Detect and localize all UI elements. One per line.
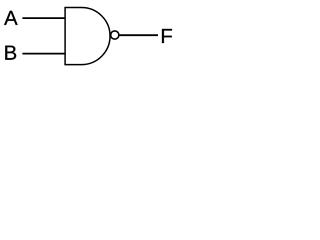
wire A xyxy=(22,17,65,19)
output label F xyxy=(162,29,172,43)
NAND gate U1 inversion bubble xyxy=(111,31,119,39)
input label B xyxy=(5,46,16,60)
NAND gate U1 body xyxy=(65,8,110,65)
wire B xyxy=(22,53,65,55)
input label A xyxy=(4,11,18,25)
wire F (output) xyxy=(119,34,158,36)
